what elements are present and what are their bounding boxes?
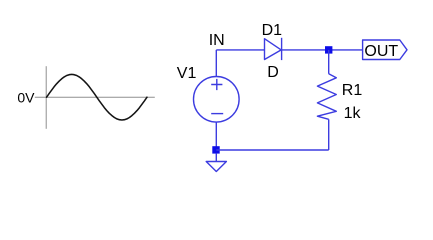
wire: ground stem [215, 154, 217, 162]
svg-text:1k: 1k [344, 105, 362, 122]
resistor R1: zigzag body [317, 74, 336, 120]
svg-text:D: D [267, 64, 279, 81]
svg-text:D1: D1 [262, 22, 283, 39]
wire: IN corner down to V1 top [215, 50, 217, 77]
voltage source V1: circle [194, 77, 240, 123]
diode D1: cathode bar [281, 38, 283, 60]
voltage source V1: plus sign [211, 79, 222, 90]
junction node: bottom net (filled square) [212, 146, 219, 153]
wire: IN node to diode anode [216, 49, 264, 51]
voltage source V1: minus sign [211, 113, 223, 115]
wire: bottom return, ground node to R1 bottom [216, 149, 328, 151]
wire: V1 bottom to ground node [215, 122, 217, 150]
port OUT: flag outline [363, 40, 407, 60]
svg-text:OUT: OUT [364, 43, 398, 60]
diode D1: triangle [265, 39, 282, 60]
junction node: top net at R1/OUT (filled square) [325, 46, 332, 53]
annotation plot: horizontal zero axis [35, 96, 155, 98]
svg-text:V1: V1 [177, 65, 197, 82]
wire: junction down to R1 top [328, 50, 330, 74]
svg-text:IN: IN [209, 32, 225, 49]
ground symbol [206, 162, 226, 172]
annotation plot: sine waveform [47, 74, 147, 120]
wire: R1 bottom lead [328, 119, 330, 150]
svg-text:R1: R1 [342, 82, 363, 99]
svg-text:0V: 0V [17, 89, 35, 105]
annotation plot: vertical axis [45, 66, 47, 129]
wire: diode cathode to OUT port [282, 49, 363, 51]
